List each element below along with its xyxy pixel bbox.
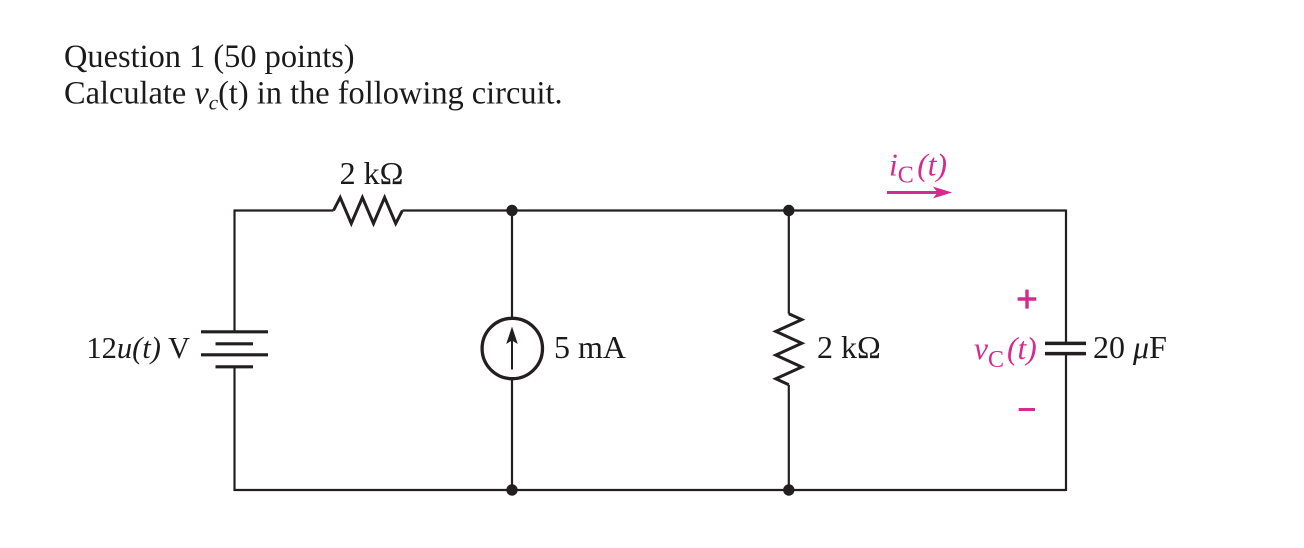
wire top-left segment: [234, 209, 334, 211]
svg-text:vC(t): vC(t): [974, 331, 1037, 373]
battery V1 plate 4 short: [216, 365, 254, 368]
current source I1 arrow shaft: [511, 339, 513, 370]
battery V1 plate 2 short: [216, 342, 254, 345]
left wire upper from top-left corner to battery: [233, 210, 235, 333]
svg-text:20 μF: 20 μF: [1093, 329, 1167, 365]
current source I1 circle: [482, 318, 542, 378]
right wire upper from top-right corner to capacitor: [1065, 210, 1067, 344]
svg-text:5 mA: 5 mA: [554, 329, 626, 365]
wire top from node B to top-right corner: [789, 209, 1066, 211]
wire from node B down to resistor R2: [788, 211, 790, 314]
node C junction dot: [506, 484, 517, 495]
node D junction dot: [783, 484, 794, 495]
node B junction dot: [783, 205, 794, 216]
svg-text:iC(t): iC(t): [889, 148, 947, 189]
wire from current source down to node C: [511, 379, 513, 490]
capacitor C1 bottom plate: [1045, 352, 1086, 356]
resistor R1 2kOhm horizontal zigzag: [334, 198, 403, 224]
svg-text:Question 1 (50 points): Question 1 (50 points): [64, 39, 355, 75]
current direction arrow iC(t) magenta: [887, 191, 941, 194]
svg-text:12u(t) V: 12u(t) V: [86, 331, 190, 365]
svg-text:2 kΩ: 2 kΩ: [340, 155, 404, 191]
label minus sign for vC(t): [1019, 408, 1035, 411]
arrowhead iC(t): [933, 187, 952, 199]
current source I1 arrowhead: [506, 327, 518, 345]
left wire lower from battery to bottom-left corner: [233, 367, 235, 491]
wire from node A down to current source: [511, 211, 513, 319]
resistor R2 2kOhm vertical zigzag: [776, 314, 802, 385]
wire from resistor R2 down to node D: [788, 385, 790, 490]
battery V1 plate 1 long: [201, 330, 268, 333]
label plus sign for vC(t): [1018, 297, 1037, 300]
wire top from node A to node B: [512, 209, 789, 211]
wire top from R1 to node A: [402, 209, 512, 211]
node A junction dot: [506, 205, 517, 216]
battery V1 plate 3 long: [201, 353, 268, 356]
capacitor C1 top plate: [1045, 342, 1086, 346]
svg-text:2 kΩ: 2 kΩ: [817, 329, 881, 365]
bottom wire from node D to bottom-right corner: [789, 489, 1066, 491]
svg-text:Calculate vc(t) in the followi: Calculate vc(t) in the following circuit…: [64, 76, 563, 115]
bottom wire from node C to node D: [512, 489, 789, 491]
bottom wire from bottom-left corner to node C: [234, 489, 512, 491]
right wire lower from capacitor to bottom-right corner: [1065, 354, 1067, 491]
